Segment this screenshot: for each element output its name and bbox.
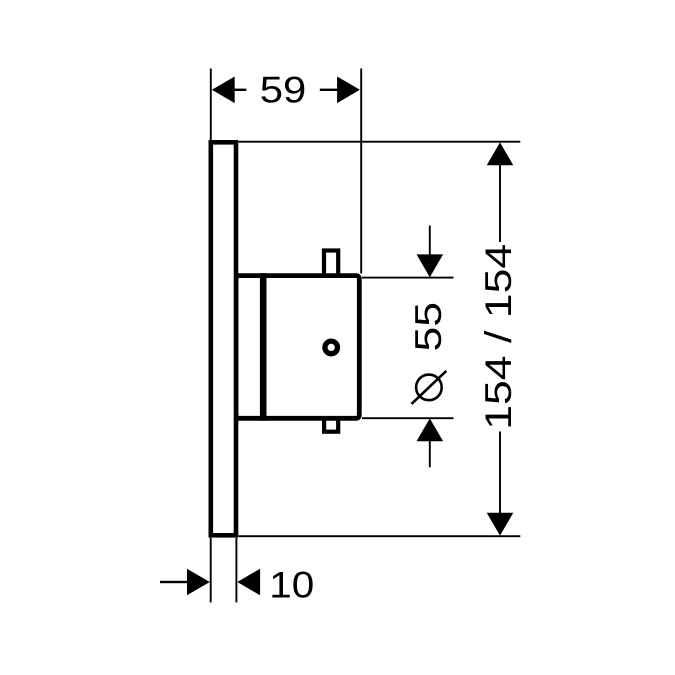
flange line: [260, 273, 267, 421]
dim 59 extension line right: [360, 69, 362, 274]
svg-text:154 / 154: 154 / 154: [478, 244, 519, 430]
dim 55 arrow down: [417, 254, 444, 277]
dim 55 label diameter symbol: [416, 375, 442, 401]
dim 55 extension line top: [362, 277, 454, 279]
dim 10 arrow right-pointing: [187, 569, 210, 596]
dim 59 arrow left: [212, 77, 235, 104]
dim 59 extension line left: [210, 69, 212, 141]
svg-text:59: 59: [260, 70, 307, 111]
dim 154 line upper: [499, 164, 501, 242]
dim 154 arrow down: [487, 513, 514, 536]
dim 59 tail right: [320, 89, 338, 91]
svg-text:10: 10: [269, 564, 314, 605]
dim 55 tail up: [429, 226, 431, 256]
dim 10 arrow left-pointing: [237, 569, 260, 596]
dim 59 tail left: [234, 89, 246, 91]
dim 55 extension line bottom: [362, 417, 454, 419]
screw dot: [325, 341, 338, 354]
dim 154 line lower: [499, 432, 501, 516]
dim 10 tail left: [160, 581, 187, 583]
dim 154 extension line top: [239, 141, 521, 143]
svg-text:55: 55: [408, 302, 449, 352]
dim 154 arrow up: [487, 142, 514, 165]
valve body box: [236, 276, 359, 419]
dim 55 tail down: [429, 440, 431, 467]
top spout stub: [324, 251, 338, 277]
dim 55 arrow up: [417, 418, 444, 441]
wall plate: [211, 142, 236, 535]
dim 59 arrow right: [337, 77, 360, 104]
dim 154 extension line bottom: [239, 535, 521, 537]
dim 10 extension line right: [235, 538, 237, 603]
dim 10 extension line left: [210, 538, 212, 603]
bottom stub: [324, 416, 338, 432]
